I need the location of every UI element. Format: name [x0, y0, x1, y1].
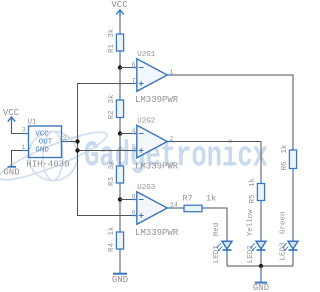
svg-text:3: 3	[22, 127, 26, 134]
op-amp U2G2	[132, 125, 173, 158]
wire U1 pin 1 to GND	[12, 151, 24, 166]
wire U2G2 output to R5	[173, 142, 261, 179]
svg-text:1k: 1k	[108, 226, 116, 236]
svg-text:GND: GND	[253, 283, 269, 292]
wire R1 to R2	[119, 56, 121, 96]
resistor R6 1k	[289, 146, 296, 174]
wire R4 to GND	[119, 254, 121, 270]
svg-text:1k: 1k	[206, 193, 216, 203]
resistor R3 3k	[116, 162, 123, 188]
svg-text:R7: R7	[183, 193, 193, 203]
svg-text:R6: R6	[281, 161, 289, 171]
junction R3/R4 to pin 8	[118, 197, 122, 201]
wire LED2 to rail	[260, 256, 262, 267]
svg-text:Red: Red	[213, 223, 221, 237]
svg-text:OUT: OUT	[39, 138, 53, 146]
wire LED3 to rail	[292, 256, 294, 267]
junction rail / GND tap	[259, 264, 263, 268]
wire R7 to LED1	[207, 208, 227, 237]
wire junction to U2G1 pin 6	[120, 67, 132, 69]
svg-text:U2G1: U2G1	[137, 51, 156, 59]
svg-text:HIH-4030: HIH-4030	[26, 160, 69, 170]
resistor R5 1k	[257, 179, 264, 206]
svg-text:6: 6	[132, 61, 136, 68]
power flag VCC (left, for U1)	[3, 108, 20, 124]
svg-text:2: 2	[63, 135, 67, 142]
resistor R2 3k	[116, 96, 123, 123]
svg-text:GND: GND	[112, 275, 128, 285]
svg-text:U2G3: U2G3	[137, 184, 156, 192]
svg-text:GND: GND	[3, 168, 19, 178]
wire U2G1 output to R6 (right edge)	[173, 75, 293, 146]
svg-text:3k: 3k	[108, 28, 116, 38]
svg-text:VCC: VCC	[111, 0, 128, 10]
svg-text:R3: R3	[108, 176, 116, 186]
svg-text:5: 5	[132, 144, 136, 151]
svg-text:Green: Green	[280, 211, 288, 234]
svg-text:3k: 3k	[108, 94, 116, 104]
op-amp U2G1	[132, 59, 173, 92]
svg-text:LM339PWR: LM339PWR	[135, 95, 179, 105]
resistor R4 1k	[116, 228, 123, 254]
svg-text:9: 9	[132, 209, 136, 216]
svg-text:U2G2: U2G2	[137, 118, 155, 126]
wire bus branch to U2G2 pin 5	[78, 150, 133, 152]
LED LED3 Green	[282, 237, 298, 256]
svg-text:1: 1	[21, 144, 25, 151]
power flag VCC (top)	[111, 0, 128, 17]
ground symbol (below R4)	[112, 269, 128, 285]
svg-text:LED2: LED2	[247, 245, 255, 263]
sensor U1 HIH-4030	[23, 126, 67, 158]
wire LED1 to rail	[226, 256, 228, 267]
wire U2G3 output to R7	[173, 207, 180, 209]
resistor R7 1k	[179, 205, 207, 212]
wire R6 to LED3	[292, 173, 294, 237]
svg-text:GND: GND	[35, 146, 49, 154]
svg-text:Yellow: Yellow	[247, 209, 255, 237]
svg-text:1k: 1k	[249, 177, 257, 187]
svg-text:R4: R4	[108, 242, 116, 252]
junction R1/R2 to pin 6	[118, 65, 122, 69]
svg-text:7: 7	[132, 77, 136, 84]
ground symbol (bottom, LEDs)	[253, 272, 269, 292]
junction bus / pin5 branch	[75, 148, 79, 152]
wire R2 to R3	[119, 122, 121, 161]
wire junction to U2G3 pin 8	[120, 199, 132, 201]
svg-text:8: 8	[132, 193, 136, 200]
resistor R1 3k	[116, 30, 123, 56]
svg-text:R5: R5	[249, 194, 257, 204]
svg-text:U1: U1	[28, 119, 38, 127]
svg-text:LED3: LED3	[280, 242, 288, 261]
LED LED1 Red	[216, 237, 232, 256]
svg-text:1k: 1k	[281, 144, 289, 154]
wire VCC flag to U1 pin 3	[12, 124, 24, 134]
svg-text:LED1: LED1	[213, 245, 221, 264]
wire R3 to R4	[119, 188, 121, 228]
svg-text:LM339PWR: LM339PWR	[135, 162, 179, 172]
wire R5 to LED2	[260, 205, 262, 237]
svg-text:3k: 3k	[108, 160, 116, 170]
junction R2/R3 to pin 4	[118, 131, 122, 135]
svg-text:R1: R1	[108, 43, 116, 53]
ground symbol (left, for U1)	[3, 163, 19, 178]
wire VCC to R1	[119, 17, 121, 30]
svg-text:4: 4	[132, 127, 136, 134]
LED LED2 Yellow	[250, 237, 266, 256]
wire cathode rail	[227, 265, 293, 267]
svg-text:LM339PWR: LM339PWR	[135, 228, 179, 238]
wire U1 OUT to bus	[67, 141, 78, 143]
svg-text:VCC: VCC	[35, 130, 49, 138]
svg-text:14: 14	[170, 202, 178, 209]
wire rail to GND	[260, 266, 262, 272]
junction bus / U1 OUT	[75, 139, 79, 143]
wire junction to U2G2 pin 4	[120, 133, 132, 135]
svg-text:R2: R2	[108, 110, 116, 119]
wire bus: U2G1 pin7 / U2G2 pin5 / U2G3 pin9 / U1 OUT	[78, 84, 133, 216]
op-amp U2G3	[132, 192, 173, 225]
